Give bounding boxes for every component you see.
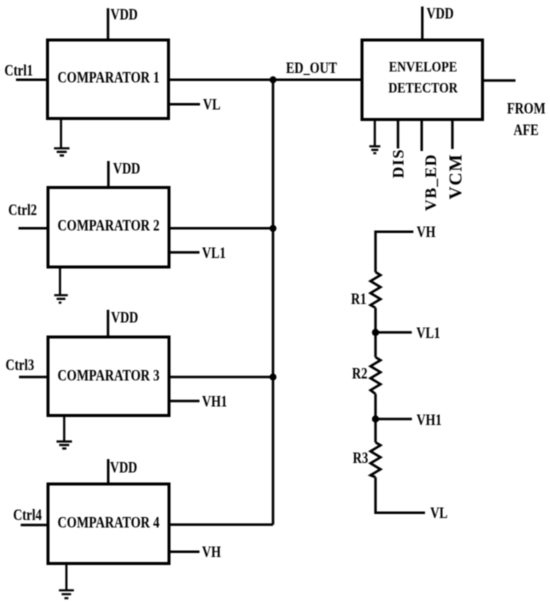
svg-text:COMPARATOR 4: COMPARATOR 4: [58, 514, 160, 531]
svg-text:VCM: VCM: [446, 154, 466, 200]
svg-text:VL1: VL1: [416, 325, 440, 343]
svg-text:VH: VH: [202, 544, 221, 562]
svg-text:VL: VL: [430, 505, 447, 523]
svg-text:ED_OUT: ED_OUT: [286, 60, 338, 78]
svg-text:VH1: VH1: [417, 412, 442, 430]
svg-text:VDD: VDD: [427, 5, 454, 23]
svg-text:DETECTOR: DETECTOR: [388, 79, 457, 95]
svg-text:COMPARATOR 2: COMPARATOR 2: [58, 218, 160, 235]
svg-text:COMPARATOR 3: COMPARATOR 3: [58, 368, 160, 385]
svg-text:VL1: VL1: [202, 245, 226, 263]
svg-text:VDD: VDD: [111, 309, 138, 327]
svg-text:ENVELOPE: ENVELOPE: [389, 58, 457, 74]
svg-text:VDD: VDD: [111, 6, 138, 24]
svg-text:VH1: VH1: [202, 393, 227, 411]
svg-text:VDD: VDD: [113, 160, 140, 178]
svg-text:R2: R2: [352, 365, 367, 383]
svg-text:VB_ED: VB_ED: [423, 154, 440, 211]
svg-text:DIS: DIS: [391, 149, 408, 179]
svg-text:VL: VL: [203, 96, 220, 114]
svg-text:R1: R1: [351, 291, 366, 309]
svg-text:FROM: FROM: [507, 100, 546, 118]
svg-text:COMPARATOR 1: COMPARATOR 1: [58, 69, 160, 86]
svg-text:Ctrl1: Ctrl1: [4, 62, 33, 80]
svg-text:Ctrl2: Ctrl2: [8, 202, 37, 220]
svg-text:VDD: VDD: [110, 459, 137, 477]
svg-text:Ctrl3: Ctrl3: [6, 357, 35, 375]
svg-text:R3: R3: [353, 450, 368, 468]
svg-text:Ctrl4: Ctrl4: [13, 507, 42, 525]
svg-text:AFE: AFE: [514, 122, 539, 140]
svg-text:VH: VH: [417, 224, 436, 242]
